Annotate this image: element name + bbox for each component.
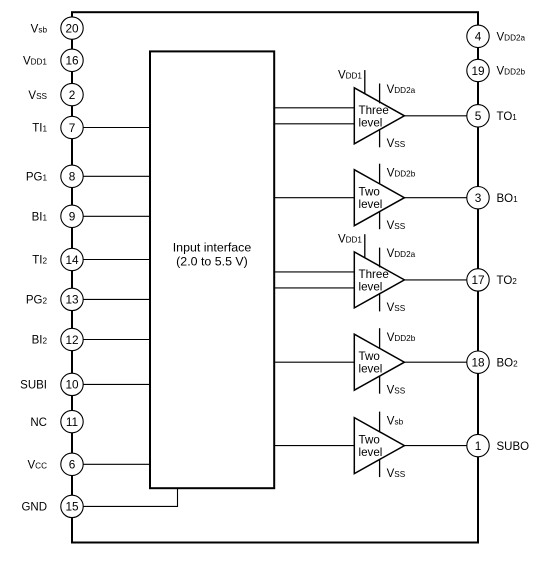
svg-text:BO2: BO2 <box>497 357 519 369</box>
svg-text:12: 12 <box>65 333 78 347</box>
svg-text:NC: NC <box>30 417 47 429</box>
svg-text:BI2: BI2 <box>32 335 48 347</box>
svg-text:Three: Three <box>359 104 389 117</box>
svg-text:4: 4 <box>475 30 482 44</box>
svg-text:VSS: VSS <box>387 468 406 480</box>
svg-text:VDD1: VDD1 <box>338 69 362 81</box>
svg-text:Vsb: Vsb <box>31 23 48 35</box>
svg-text:Two: Two <box>359 434 380 447</box>
svg-text:GND: GND <box>21 502 47 514</box>
svg-text:11: 11 <box>66 415 78 429</box>
svg-text:(2.0 to 5.5 V): (2.0 to 5.5 V) <box>176 255 248 269</box>
svg-text:9: 9 <box>69 210 76 224</box>
svg-text:VSS: VSS <box>387 384 406 396</box>
svg-text:VDD2a: VDD2a <box>497 32 526 44</box>
svg-text:VDD2a: VDD2a <box>387 248 416 260</box>
svg-text:PG2: PG2 <box>26 295 48 307</box>
svg-text:18: 18 <box>471 356 485 370</box>
svg-text:PG1: PG1 <box>26 172 48 184</box>
svg-text:19: 19 <box>471 64 484 78</box>
svg-text:1: 1 <box>475 439 482 453</box>
svg-text:Three: Three <box>359 268 389 281</box>
svg-text:15: 15 <box>65 500 79 514</box>
svg-text:VDD2b: VDD2b <box>497 66 526 78</box>
svg-text:Two: Two <box>359 350 380 363</box>
svg-text:13: 13 <box>65 293 79 307</box>
svg-text:Vsb: Vsb <box>387 416 404 428</box>
svg-text:VDD2a: VDD2a <box>387 84 416 96</box>
svg-text:TI2: TI2 <box>32 255 47 267</box>
svg-text:VDD2b: VDD2b <box>387 167 416 179</box>
svg-text:SUBI: SUBI <box>20 380 47 392</box>
svg-text:10: 10 <box>65 378 79 392</box>
svg-text:2: 2 <box>69 88 76 102</box>
svg-text:VDD2b: VDD2b <box>387 332 416 344</box>
svg-text:VDD1: VDD1 <box>23 56 47 68</box>
svg-text:VSS: VSS <box>387 302 406 314</box>
svg-text:17: 17 <box>471 273 484 287</box>
svg-text:20: 20 <box>65 21 79 35</box>
svg-text:Two: Two <box>359 186 380 199</box>
svg-text:7: 7 <box>69 121 76 135</box>
svg-text:Input interface: Input interface <box>173 240 252 254</box>
svg-text:TI1: TI1 <box>32 123 47 135</box>
svg-text:VSS: VSS <box>28 90 47 102</box>
svg-text:SUBO: SUBO <box>497 441 530 453</box>
svg-text:16: 16 <box>65 54 79 68</box>
svg-text:5: 5 <box>475 109 482 123</box>
svg-text:TO1: TO1 <box>497 111 518 123</box>
svg-text:VSS: VSS <box>387 138 406 150</box>
svg-text:TO2: TO2 <box>497 275 518 287</box>
svg-text:8: 8 <box>69 170 76 184</box>
svg-text:BI1: BI1 <box>32 212 48 224</box>
svg-text:VCC: VCC <box>28 460 48 472</box>
svg-text:level: level <box>359 446 383 459</box>
svg-text:14: 14 <box>65 253 79 267</box>
svg-text:level: level <box>359 363 383 376</box>
svg-text:6: 6 <box>69 458 76 472</box>
svg-text:VDD1: VDD1 <box>338 233 362 245</box>
svg-text:level: level <box>359 198 383 211</box>
svg-text:level: level <box>359 116 383 129</box>
svg-text:BO1: BO1 <box>497 193 519 205</box>
svg-text:VSS: VSS <box>387 220 406 232</box>
svg-text:3: 3 <box>475 191 482 205</box>
svg-text:level: level <box>359 280 383 293</box>
